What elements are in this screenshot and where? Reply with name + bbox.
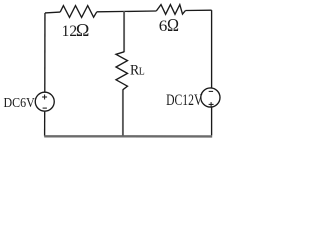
svg-text:DC12V: DC12V (166, 92, 203, 109)
V2 minus sign (209, 90, 213, 92)
wire right vertical lower (211, 107, 213, 135)
svg-text:DC6V: DC6V (4, 96, 35, 111)
resistor RL zigzag (116, 52, 128, 90)
wire right vertical upper (211, 10, 213, 88)
wire top-right segment (186, 9, 212, 11)
wire middle vertical upper (123, 11, 125, 52)
V2 plus sign (209, 103, 214, 105)
resistor 6Ω zigzag (156, 5, 185, 15)
svg-text:12: 12 (62, 23, 78, 40)
wire middle vertical lower (122, 89, 124, 135)
svg-text:Ω: Ω (76, 20, 90, 40)
wire left vertical lower (44, 112, 46, 137)
resistor 12Ω zigzag (60, 6, 97, 18)
wire top-middle segment (97, 10, 157, 13)
wire top-left segment (45, 11, 60, 14)
voltage source V2 circle (DC12V) (201, 88, 220, 107)
V1 minus sign (43, 107, 47, 109)
voltage source V1 circle (DC6V) (35, 92, 54, 111)
wire left vertical upper (44, 13, 46, 92)
svg-text:L: L (139, 66, 145, 77)
wire bottom horizontal (44, 135, 212, 137)
svg-text:Ω: Ω (167, 15, 179, 35)
V1 plus sign (42, 96, 47, 98)
